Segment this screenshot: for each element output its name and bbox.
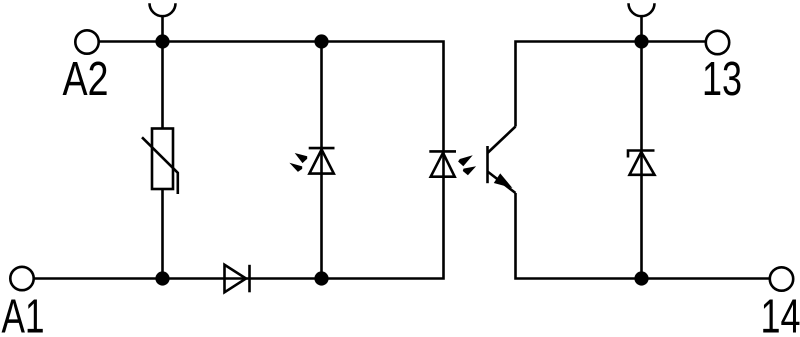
wire emitter to bottom bbox=[516, 193, 771, 279]
wire zener branch bbox=[640, 42, 643, 279]
junction top-zener bbox=[634, 34, 648, 48]
terminal A2 bbox=[75, 30, 98, 53]
LED1 light arrow upper bbox=[295, 153, 308, 163]
diode D1 bbox=[225, 265, 250, 293]
varistor RU bbox=[142, 129, 178, 195]
terminal 14 bbox=[770, 267, 793, 290]
label 14 bbox=[763, 299, 799, 332]
wire LED1 branch bbox=[320, 42, 323, 279]
LED1 light arrow lower bbox=[289, 163, 302, 172]
socket symbol S1 bbox=[150, 3, 176, 40]
opto light arrow upper bbox=[458, 155, 473, 166]
junction bottom-varistor bbox=[155, 271, 169, 285]
junction top-LED bbox=[314, 34, 328, 48]
zener suppressor diode Z1 bbox=[628, 151, 655, 175]
wire bottom input left bbox=[35, 277, 250, 280]
junction bottom-zener bbox=[634, 271, 648, 285]
terminal A1 bbox=[10, 267, 33, 290]
socket symbol S2 bbox=[629, 3, 655, 40]
label A1 bbox=[2, 299, 43, 332]
wire top input: A2 to opto-LED corner bbox=[100, 42, 444, 131]
terminal 13 bbox=[706, 31, 729, 54]
label 13 bbox=[705, 61, 741, 95]
phototransistor U1b bbox=[488, 127, 516, 194]
opto light arrow lower bbox=[463, 166, 476, 175]
wire varistor branch lower bbox=[161, 189, 164, 279]
wire bottom input right bbox=[250, 230, 444, 279]
wire varistor branch upper bbox=[161, 42, 164, 129]
junction top-varistor bbox=[155, 34, 169, 48]
optocoupler LED U1a bbox=[429, 130, 456, 230]
wire collector to top bbox=[516, 42, 706, 127]
junction bottom-LED bbox=[314, 271, 328, 285]
label A2 bbox=[63, 61, 107, 95]
LED1 indicator diode bbox=[309, 148, 335, 174]
